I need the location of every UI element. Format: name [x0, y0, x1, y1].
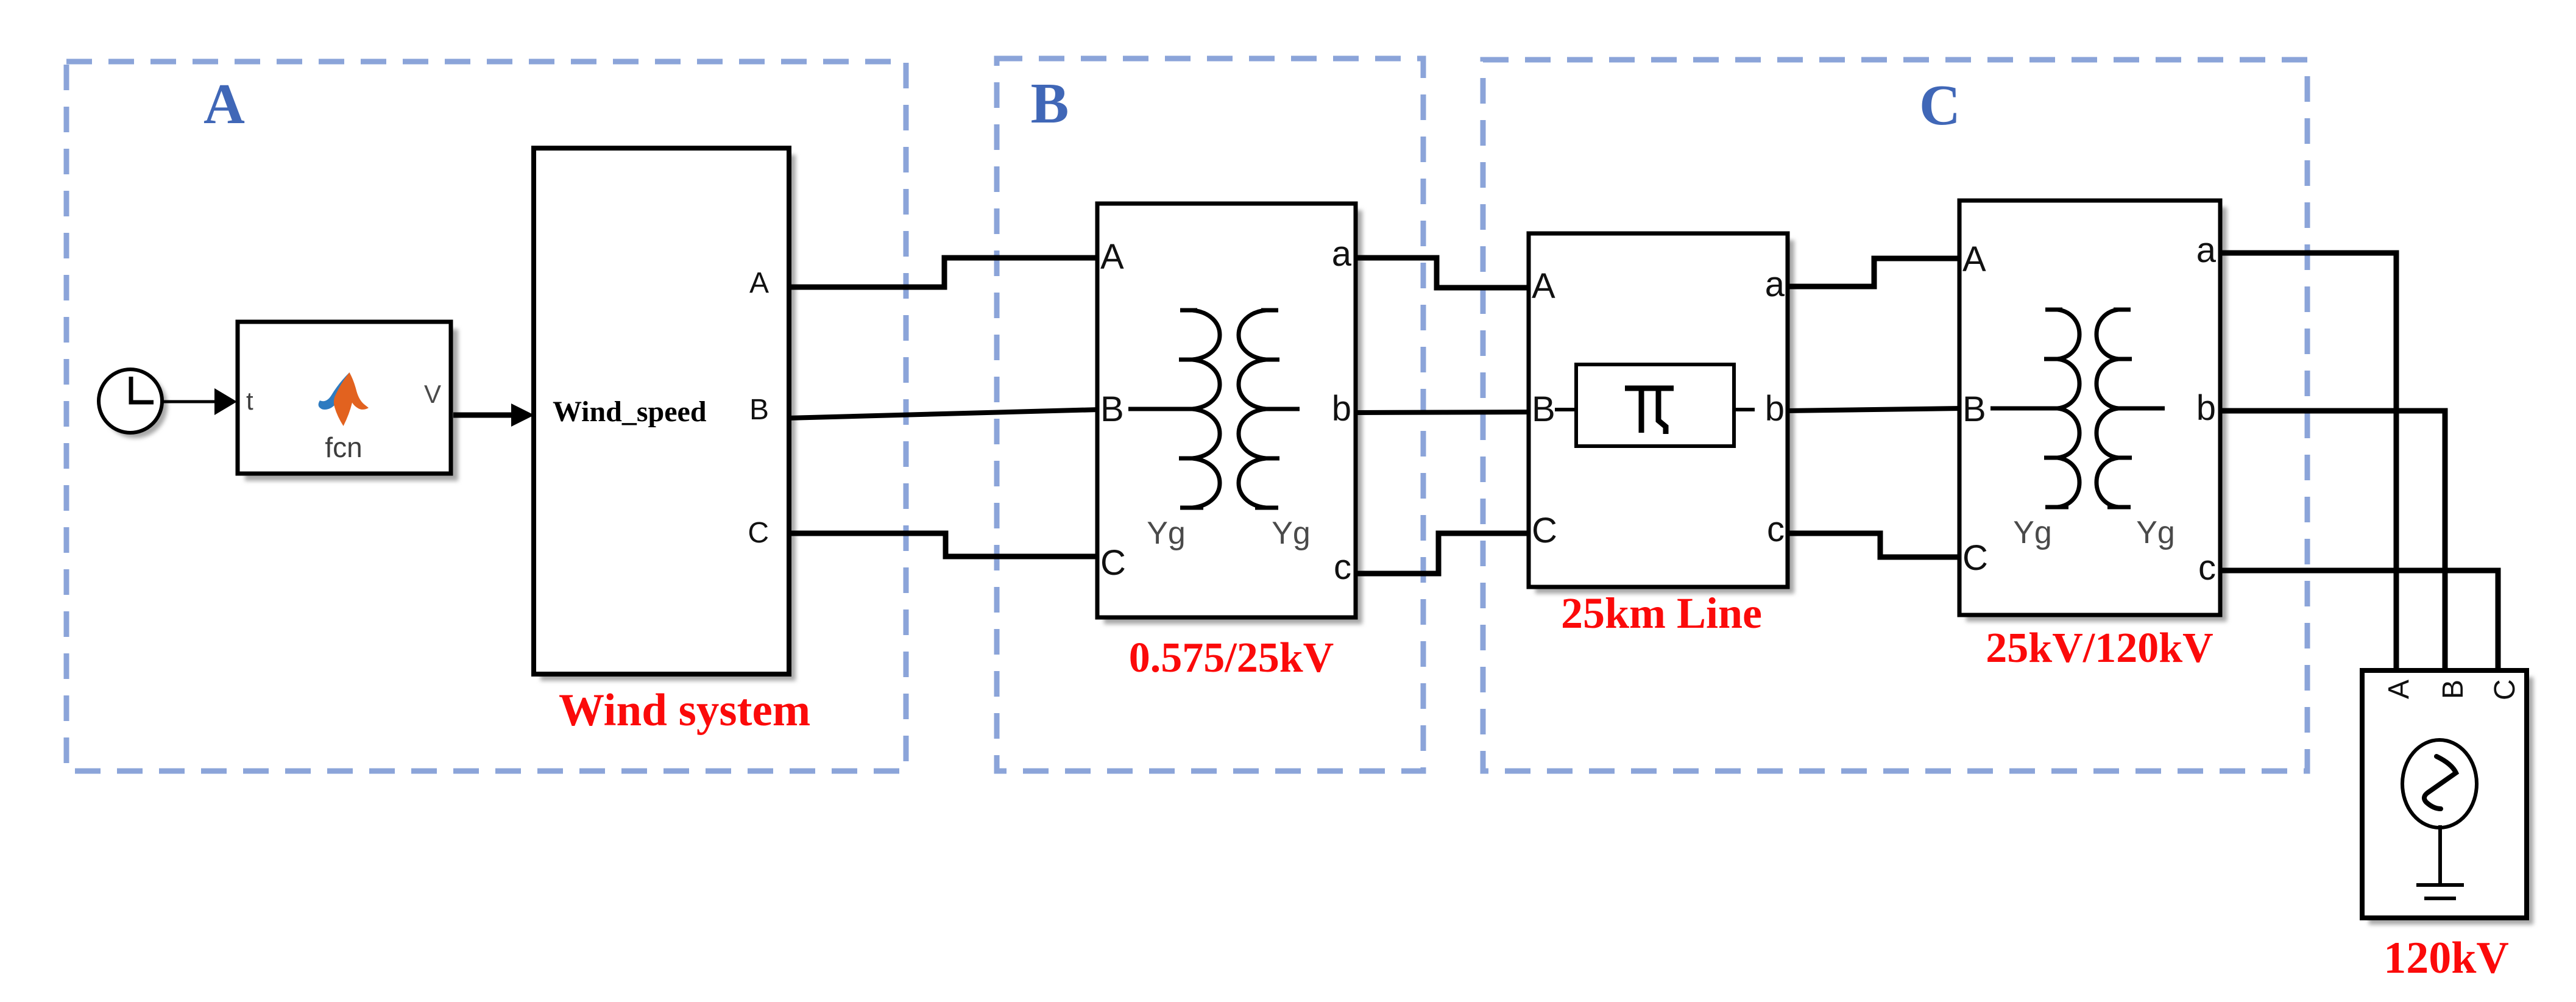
svg-text:fcn: fcn: [325, 432, 362, 463]
svg-text:Wind system: Wind system: [559, 685, 810, 736]
svg-text:c: c: [2198, 548, 2216, 588]
svg-text:C: C: [1100, 543, 1126, 583]
svg-text:B: B: [1031, 72, 1069, 135]
svg-text:A: A: [749, 267, 769, 299]
svg-text:Yg: Yg: [1147, 516, 1186, 551]
svg-text:a: a: [2196, 230, 2217, 270]
svg-text:b: b: [1765, 389, 1785, 428]
svg-text:B: B: [1532, 389, 1555, 429]
svg-text:B: B: [749, 394, 769, 426]
svg-text:V: V: [424, 380, 441, 408]
svg-text:B: B: [1962, 389, 1986, 429]
svg-text:C: C: [1532, 511, 1557, 550]
svg-text:Yg: Yg: [2136, 515, 2175, 550]
svg-text:B: B: [2437, 680, 2469, 699]
svg-text:Wind_speed: Wind_speed: [553, 396, 707, 428]
svg-text:C: C: [748, 517, 769, 549]
svg-text:C: C: [2489, 679, 2521, 700]
svg-text:25kV/120kV: 25kV/120kV: [1986, 625, 2213, 672]
svg-text:A: A: [1100, 237, 1124, 277]
svg-text:A: A: [1962, 240, 1986, 279]
svg-text:c: c: [1334, 547, 1351, 587]
svg-text:0.575/25kV: 0.575/25kV: [1129, 634, 1334, 681]
svg-text:A: A: [2383, 680, 2415, 699]
svg-text:25km Line: 25km Line: [1561, 589, 1762, 638]
svg-text:B: B: [1100, 389, 1124, 429]
svg-text:120kV: 120kV: [2383, 933, 2509, 983]
svg-text:a: a: [1332, 234, 1352, 274]
svg-text:C: C: [1962, 538, 1988, 578]
svg-text:c: c: [1767, 510, 1785, 549]
svg-text:A: A: [1532, 266, 1555, 306]
svg-text:b: b: [1332, 389, 1351, 428]
svg-text:A: A: [203, 73, 245, 136]
svg-text:C: C: [1919, 74, 1961, 137]
svg-text:Yg: Yg: [2013, 515, 2052, 550]
svg-text:b: b: [2196, 388, 2216, 428]
svg-text:a: a: [1765, 265, 1785, 304]
svg-text:t: t: [246, 386, 253, 415]
svg-text:Yg: Yg: [1272, 516, 1311, 551]
